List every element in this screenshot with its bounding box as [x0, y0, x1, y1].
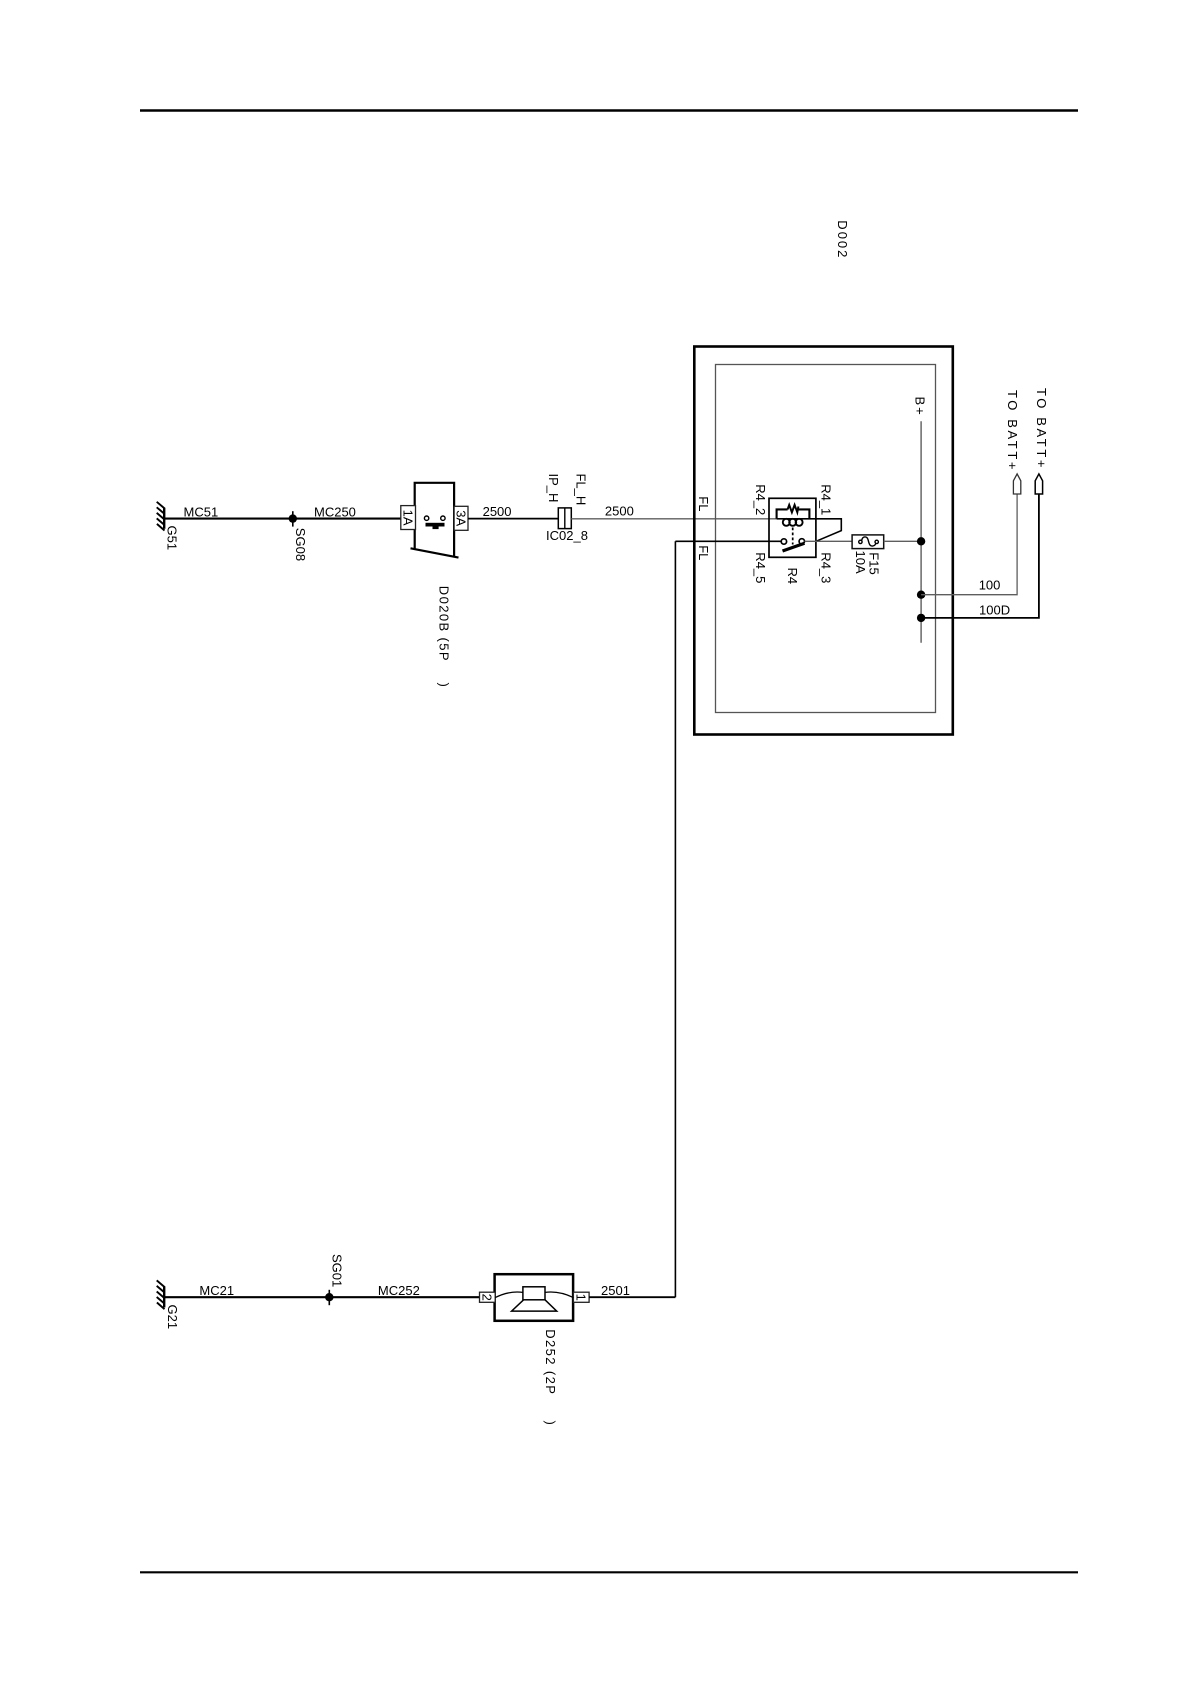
svg-text:1: 1	[574, 1294, 589, 1301]
svg-text:MC21: MC21	[199, 1283, 234, 1298]
svg-text:MC250: MC250	[314, 504, 356, 519]
svg-text:G21: G21	[165, 1305, 180, 1330]
svg-text:10A: 10A	[853, 551, 868, 574]
svg-text:F15: F15	[866, 552, 881, 574]
svg-text:R4_2: R4_2	[753, 484, 768, 515]
svg-text:TO BATT+: TO BATT+	[1005, 390, 1020, 472]
svg-text:B+: B+	[912, 397, 927, 417]
svg-text:R4_5: R4_5	[753, 552, 768, 583]
svg-text:R4_3: R4_3	[819, 552, 834, 583]
svg-text:MC252: MC252	[378, 1283, 420, 1298]
svg-text:D020B (5P: D020B (5P	[437, 586, 452, 662]
svg-text:MC51: MC51	[184, 504, 219, 519]
svg-text:D002: D002	[835, 220, 850, 259]
svg-text:1A: 1A	[401, 510, 416, 526]
svg-text:IP_H: IP_H	[546, 474, 561, 503]
svg-text:2500: 2500	[605, 504, 634, 519]
svg-text:FL_H: FL_H	[574, 474, 589, 506]
svg-text:100: 100	[979, 578, 1001, 593]
svg-text:): )	[437, 683, 452, 687]
svg-text:FL: FL	[696, 545, 711, 560]
svg-text:TO BATT+: TO BATT+	[1034, 388, 1049, 470]
svg-text:R4_1: R4_1	[819, 484, 834, 515]
svg-text:100D: 100D	[979, 603, 1010, 618]
svg-text:2500: 2500	[483, 504, 512, 519]
svg-text:): )	[543, 1421, 558, 1425]
svg-text:2: 2	[480, 1294, 495, 1301]
svg-text:3A: 3A	[454, 510, 469, 526]
svg-text:SG08: SG08	[293, 528, 308, 561]
svg-text:G51: G51	[165, 526, 180, 551]
svg-text:SG01: SG01	[330, 1254, 345, 1287]
svg-text:2501: 2501	[601, 1283, 630, 1298]
svg-text:FL: FL	[696, 496, 711, 511]
svg-text:R4: R4	[785, 568, 800, 585]
svg-text:D252 (2P: D252 (2P	[543, 1329, 558, 1395]
svg-text:IC02_8: IC02_8	[546, 528, 588, 543]
